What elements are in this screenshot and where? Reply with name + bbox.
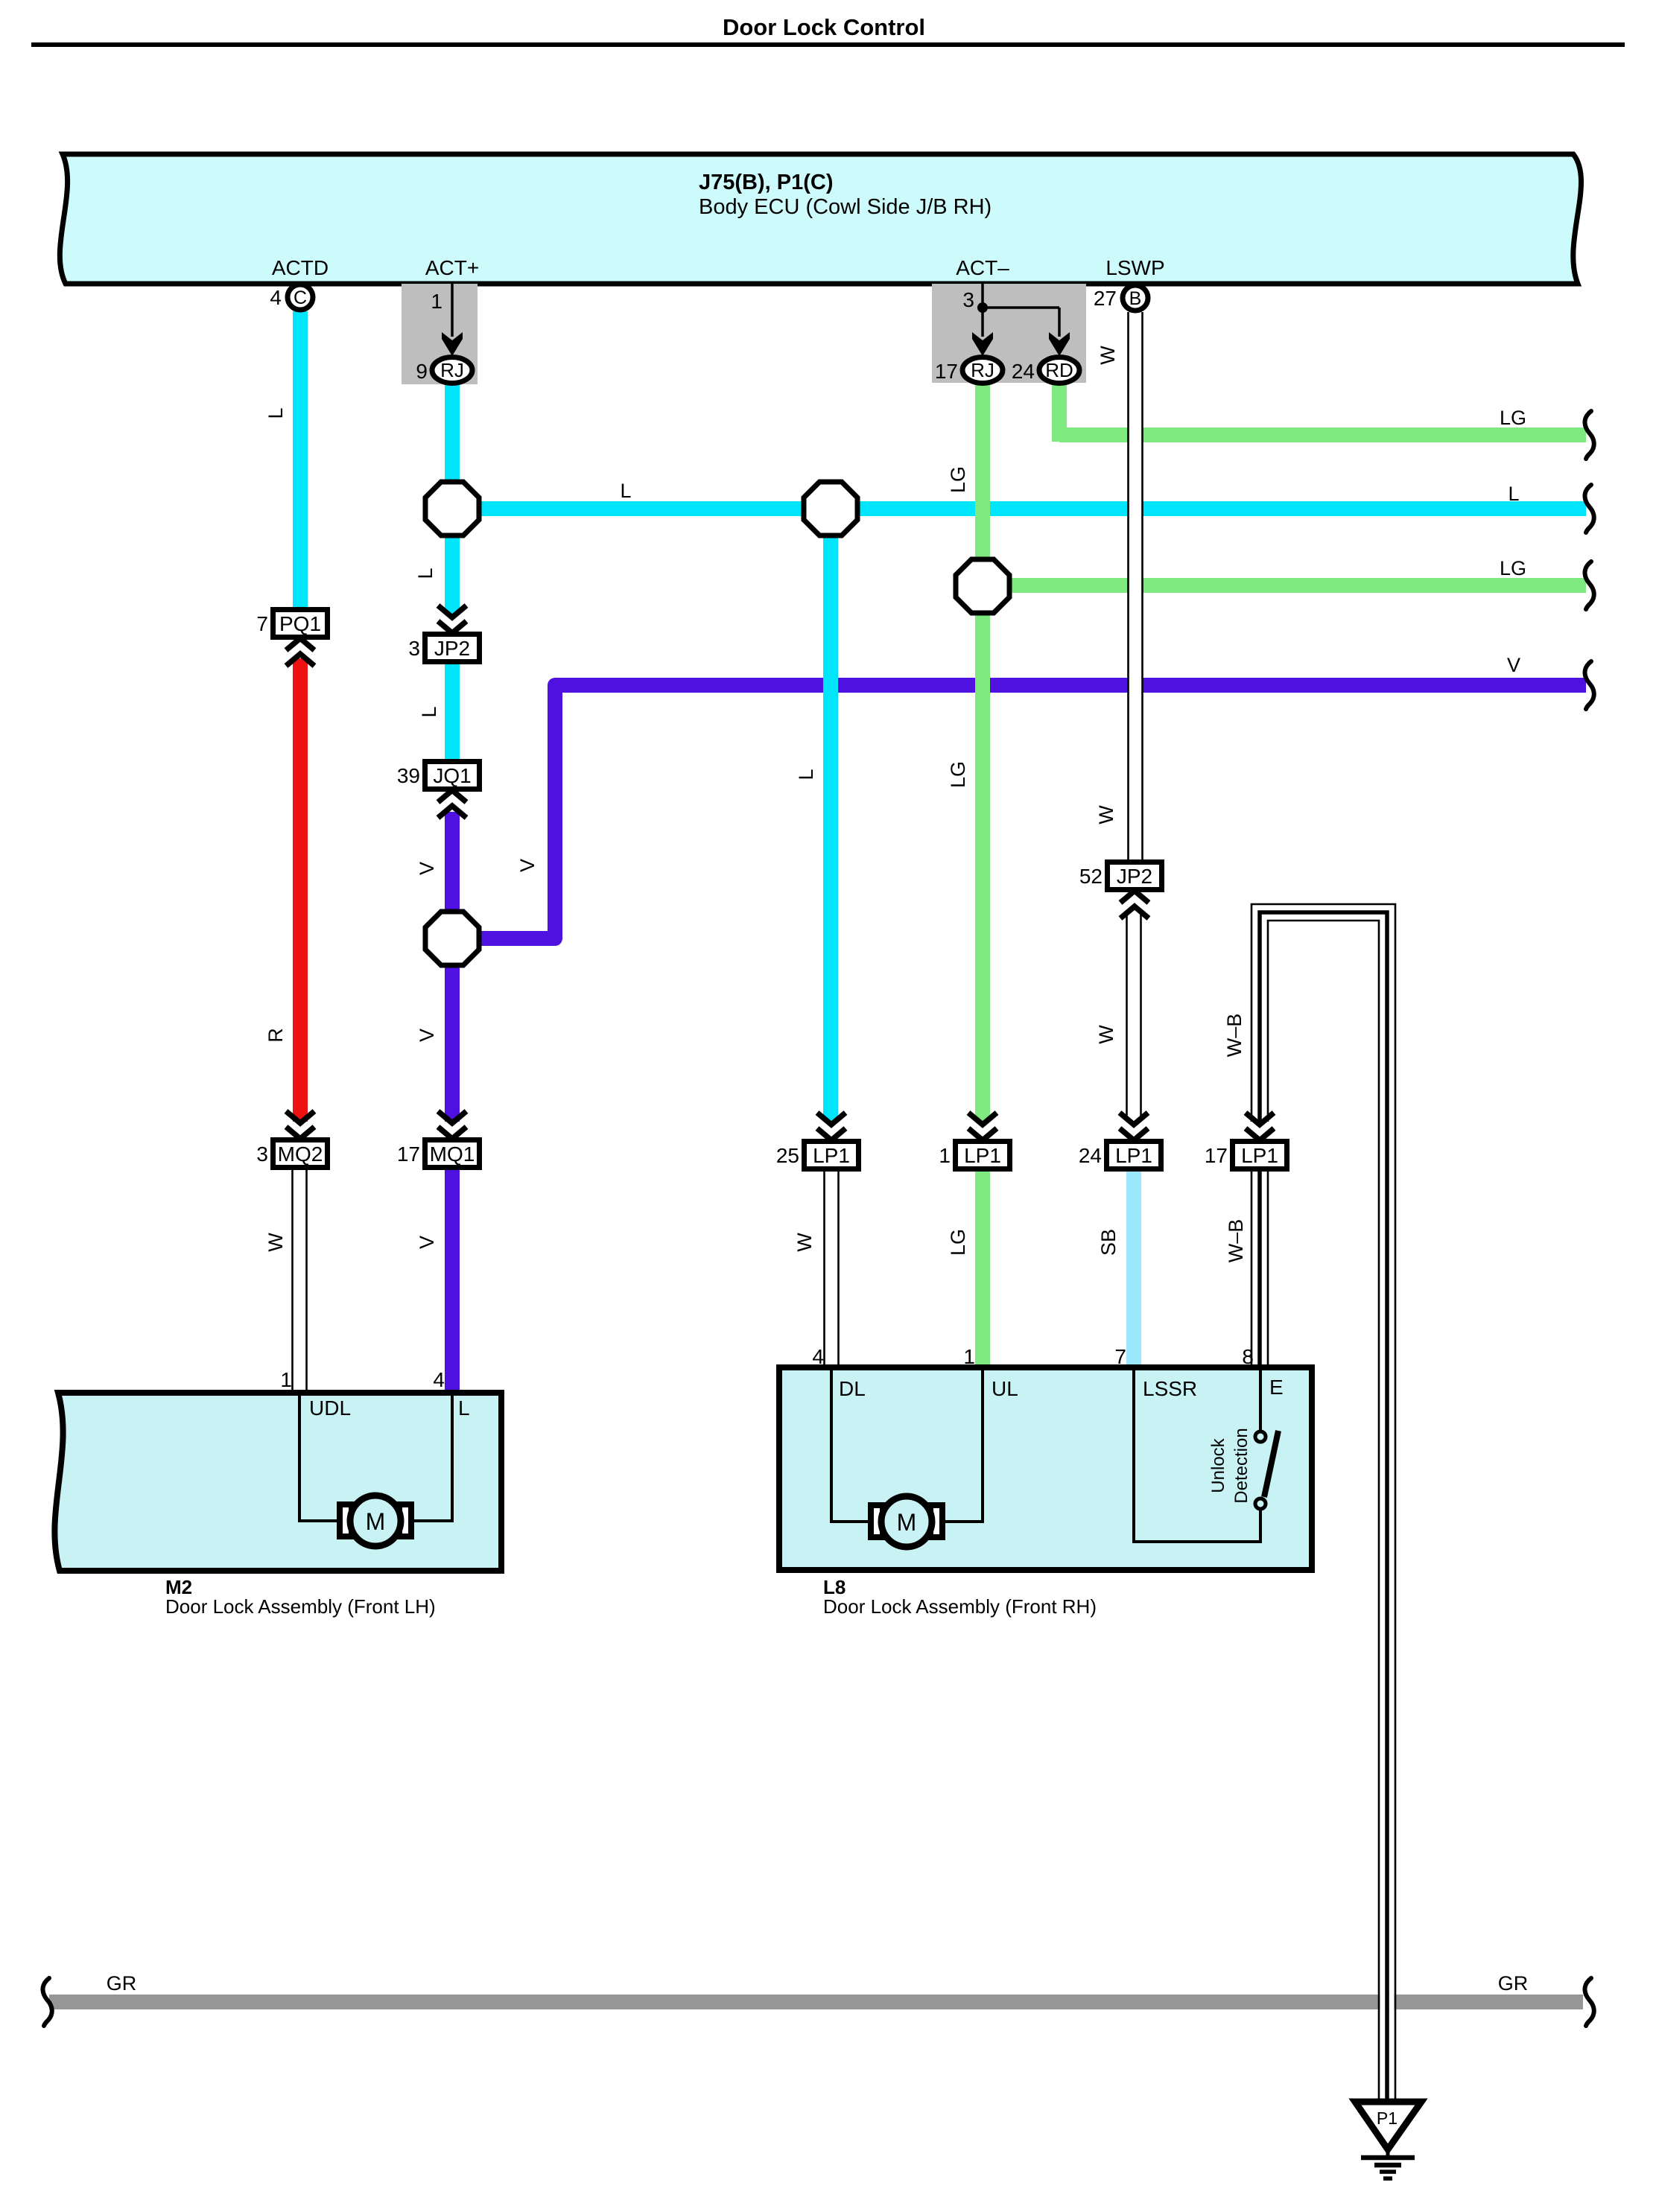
svg-text:M: M [897,1509,917,1536]
svg-text:L: L [418,706,440,717]
svg-text:25: 25 [776,1144,799,1167]
svg-text:3: 3 [256,1142,268,1166]
svg-text:JQ1: JQ1 [433,764,471,787]
svg-text:52: 52 [1079,865,1103,888]
svg-text:1: 1 [431,290,442,313]
svg-text:LG: LG [947,1229,969,1256]
svg-text:4: 4 [433,1368,445,1391]
svg-text:LSSR: LSSR [1143,1377,1197,1400]
svg-text:LG: LG [1500,557,1526,579]
svg-text:Door Lock Control: Door Lock Control [723,14,925,40]
svg-text:W–B: W–B [1223,1014,1246,1058]
svg-text:LP1: LP1 [813,1144,850,1167]
svg-text:UL: UL [992,1377,1018,1400]
svg-text:E: E [1269,1376,1284,1399]
svg-text:3: 3 [962,288,974,311]
svg-text:MQ2: MQ2 [278,1142,323,1166]
svg-text:W: W [1097,346,1119,365]
svg-text:Door Lock Assembly (Front RH): Door Lock Assembly (Front RH) [823,1595,1097,1618]
svg-text:L: L [795,769,817,780]
svg-text:GR: GR [1498,1972,1529,1995]
svg-text:Unlock: Unlock [1208,1437,1228,1493]
svg-text:L: L [620,480,631,502]
svg-text:V: V [416,862,438,875]
svg-text:GR: GR [107,1972,137,1995]
svg-text:W–B: W–B [1225,1219,1247,1263]
svg-text:L: L [1508,483,1519,505]
svg-text:1: 1 [963,1345,975,1368]
svg-text:B: B [1129,288,1142,309]
svg-text:1: 1 [280,1368,292,1391]
svg-text:J75(B), P1(C): J75(B), P1(C) [699,171,834,194]
svg-text:Detection: Detection [1231,1428,1251,1503]
svg-text:LP1: LP1 [964,1144,1001,1167]
svg-text:RD: RD [1045,359,1073,381]
svg-text:LG: LG [947,761,969,788]
svg-text:9: 9 [416,360,428,383]
svg-text:Body ECU (Cowl Side J/B RH): Body ECU (Cowl Side J/B RH) [699,195,992,219]
svg-text:24: 24 [1012,360,1035,383]
svg-text:4: 4 [270,286,282,309]
svg-text:JP2: JP2 [434,637,470,660]
svg-text:V: V [416,1029,438,1042]
svg-text:RJ: RJ [971,359,994,381]
svg-text:LP1: LP1 [1115,1144,1152,1167]
svg-text:JP2: JP2 [1117,865,1152,888]
svg-text:ACTD: ACTD [272,256,329,279]
svg-text:UDL: UDL [309,1396,351,1420]
svg-text:17: 17 [935,360,958,383]
svg-text:SB: SB [1097,1229,1120,1256]
svg-text:V: V [416,1236,438,1249]
svg-text:W: W [1095,1025,1117,1044]
svg-text:4: 4 [812,1345,824,1368]
svg-text:PQ1: PQ1 [279,612,321,635]
svg-text:LP1: LP1 [1241,1144,1278,1167]
svg-text:M: M [366,1508,386,1535]
svg-text:L: L [458,1396,470,1420]
svg-text:P1: P1 [1377,2108,1398,2128]
svg-text:8: 8 [1242,1345,1254,1368]
svg-text:ACT–: ACT– [956,256,1009,279]
svg-text:Door Lock Assembly (Front LH): Door Lock Assembly (Front LH) [165,1595,436,1618]
svg-text:L: L [264,407,287,419]
svg-text:V: V [1507,654,1520,676]
svg-text:7: 7 [1114,1345,1126,1368]
svg-text:R: R [264,1028,287,1043]
svg-text:DL: DL [839,1377,866,1400]
svg-text:27: 27 [1094,287,1117,310]
svg-text:17: 17 [1205,1144,1228,1167]
svg-text:MQ1: MQ1 [430,1142,475,1166]
svg-text:3: 3 [408,637,420,660]
svg-text:V: V [516,859,539,872]
svg-text:24: 24 [1079,1144,1102,1167]
svg-text:W: W [1095,805,1117,824]
svg-text:39: 39 [397,764,420,787]
svg-text:C: C [294,287,307,308]
svg-text:LSWP: LSWP [1105,256,1164,279]
svg-text:W: W [793,1233,816,1252]
svg-text:W: W [264,1233,287,1252]
svg-text:7: 7 [256,612,268,635]
svg-text:17: 17 [397,1142,420,1166]
svg-text:RJ: RJ [440,359,464,381]
svg-text:1: 1 [939,1144,951,1167]
svg-text:LG: LG [1500,407,1526,429]
svg-text:LG: LG [947,466,969,493]
svg-text:ACT+: ACT+ [425,256,479,279]
svg-text:L: L [414,568,437,579]
